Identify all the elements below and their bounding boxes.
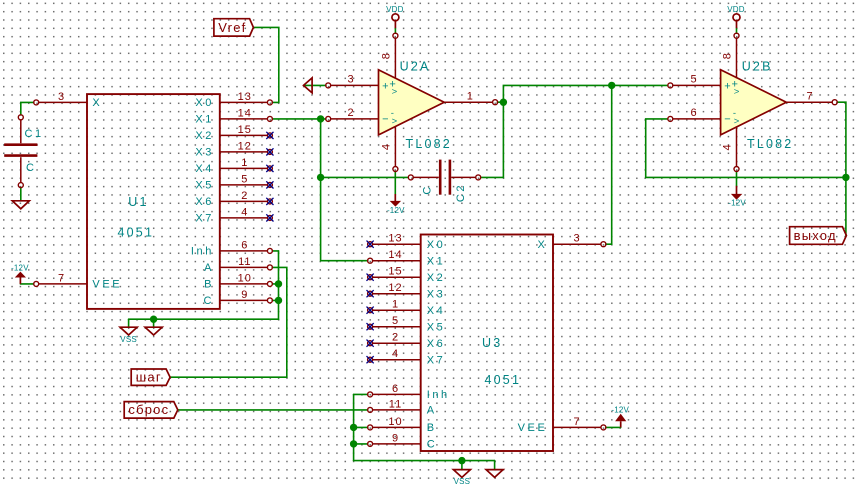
U1 pin 2 X6 [195, 190, 273, 208]
svg-text:C2: C2 [455, 183, 467, 202]
svg-text:6: 6 [241, 239, 248, 251]
svg-text:3: 3 [573, 233, 580, 245]
wire stem to VSS symbol U1 [128, 319, 130, 327]
svg-text:X0: X0 [427, 239, 446, 251]
svg-text:>: > [734, 87, 740, 98]
junction U1 pin B on VSS rail [275, 280, 282, 287]
wire U1 control vertical to VSS rail [278, 251, 280, 319]
plus mark inside U2A [382, 79, 397, 98]
U1 pin 13 X0 [195, 91, 272, 109]
U3 pin 3 X [537, 233, 605, 251]
svg-text:>: > [392, 87, 398, 98]
U3 pin 10 B [368, 416, 437, 434]
svg-text:выход: выход [794, 228, 837, 243]
wire VDD to U2A pin 8 [394, 28, 396, 33]
svg-text:5: 5 [241, 173, 248, 185]
no-connect flag on U3 pin 12 [367, 290, 374, 297]
power symbol -12V at U1 VEE [11, 264, 29, 284]
svg-text:-12V: -12V [11, 264, 29, 273]
svg-text:X2: X2 [427, 272, 446, 284]
svg-text:A: A [427, 405, 437, 417]
svg-text:6: 6 [690, 107, 697, 119]
svg-text:10: 10 [388, 416, 402, 428]
svg-text:12: 12 [238, 140, 252, 152]
U1 pin 5 X5 [195, 173, 273, 191]
junction feedback at C2 left net [317, 174, 324, 181]
no-connect flag on U1 pin 15 [266, 132, 273, 139]
svg-text:X7: X7 [427, 354, 446, 366]
wire U2B feedback pin 6 loop [646, 119, 846, 177]
U1 pin 9 C [203, 289, 272, 307]
svg-text:13: 13 [238, 91, 252, 103]
svg-text:−: − [382, 114, 388, 126]
wire C1 bottom to ground [20, 188, 22, 201]
U3 pin 13 X0 [367, 233, 446, 251]
U2A pin 4 V- power pin [380, 126, 398, 171]
svg-text:B: B [427, 422, 437, 434]
wire U1 pin 9 C stub [272, 299, 278, 301]
capacitor C1 [4, 115, 37, 188]
wire U3 pin 9 C stub [354, 443, 368, 445]
svg-text:−: − [724, 114, 730, 126]
U1 pin 14 X1 [195, 107, 272, 125]
svg-text:5: 5 [690, 74, 697, 86]
svg-text:-12V: -12V [611, 405, 629, 414]
svg-text:13: 13 [388, 233, 402, 245]
svg-text:12: 12 [388, 282, 402, 294]
svg-text:X6: X6 [427, 338, 446, 350]
U1 pin 10 B [204, 272, 272, 290]
svg-text:10: 10 [238, 272, 252, 284]
global label Vref [214, 19, 254, 36]
no-connect flag on U1 pin 12 [266, 148, 273, 155]
svg-text:+: + [724, 81, 730, 93]
U1 pin 4 X7 [195, 206, 273, 224]
ground symbol below C1 [12, 201, 29, 209]
no-connect flag on U3 pin 15 [367, 274, 374, 281]
U2A pin 3 non-inverting input [326, 74, 379, 88]
svg-text:11: 11 [238, 256, 251, 268]
wire stem to ground symbol U1 [153, 319, 155, 327]
IC U3 4051 body [421, 235, 553, 452]
op-amp U2A TL082 triangle [379, 70, 445, 135]
svg-text:2: 2 [241, 190, 248, 202]
U3 pin 1 X4 [367, 299, 446, 317]
no-connect flag on U3 pin 1 [367, 307, 374, 314]
U3 pin 6 Inh [368, 383, 450, 401]
svg-text:TL082: TL082 [406, 137, 452, 151]
wire U3 pin 10 B stub [354, 426, 368, 428]
wire U1 pin 14 to U2A pin 2 [272, 118, 326, 120]
svg-text:X1: X1 [427, 255, 446, 267]
U2B pin 4 V- power pin [721, 126, 739, 171]
svg-text:3: 3 [58, 91, 65, 103]
svg-text:Vref: Vref [218, 20, 246, 35]
wire U1 pin 6 Inh stub [272, 250, 278, 252]
wire U2A pin 1 stub [497, 101, 503, 103]
svg-text:VDD: VDD [727, 5, 745, 14]
U3 pin 5 X5 [367, 315, 446, 333]
wire U1 pin 3 to C1 top [21, 102, 34, 115]
wire U2B pin 7 output down to vyhod label [837, 102, 846, 235]
U2B pin 5 non-inverting input [668, 74, 721, 88]
global label vyhod [790, 227, 847, 245]
minus mark inside U2B [724, 108, 739, 127]
U2A pin 1 output [444, 91, 497, 105]
svg-text:7: 7 [806, 91, 813, 103]
U3 pin 15 X2 [367, 266, 446, 284]
U1 pin 12 X3 [195, 140, 273, 158]
svg-text:U3: U3 [482, 336, 502, 350]
wire output node up and to U2B pin 5 [503, 85, 668, 102]
wire U2B pin 4 to -12V [736, 171, 738, 185]
junction node X1 at U2A pin 2 [317, 115, 324, 122]
wire U2A pin 4 to -12V [394, 171, 396, 194]
svg-text:8: 8 [721, 52, 733, 59]
svg-text:>: > [392, 116, 398, 127]
svg-text:>: > [734, 116, 740, 127]
junction branch to U3 X input [608, 82, 615, 89]
svg-text:шаг: шаг [136, 370, 162, 385]
junction U3 pin C on VSS rail [350, 440, 357, 447]
wire feedback node to C2 left [321, 176, 409, 178]
U3 pin 2 X6 [367, 332, 446, 350]
junction U1 pin C on VSS rail [275, 297, 282, 304]
U3 pin 7 VEE [518, 416, 606, 434]
svg-text:C: C [422, 184, 434, 195]
power symbol -12V at U3 VEE [611, 405, 629, 427]
svg-text:X2: X2 [195, 130, 214, 142]
U1 pin 11 A [204, 256, 272, 274]
svg-text:B: B [204, 279, 214, 291]
U1 pin 7 VEE [34, 272, 123, 290]
svg-text:VSS: VSS [120, 335, 137, 344]
svg-text:1: 1 [392, 299, 399, 311]
svg-text:TL082: TL082 [747, 137, 793, 151]
svg-text:Inh: Inh [191, 246, 214, 258]
svg-text:3: 3 [347, 74, 354, 86]
junction U2A output node [500, 99, 507, 106]
svg-text:8: 8 [380, 52, 392, 59]
svg-text:1: 1 [467, 91, 474, 103]
capacitor C2 [408, 160, 480, 195]
svg-text:14: 14 [238, 107, 252, 119]
U1 pin 15 X2 [195, 124, 273, 142]
svg-text:U2A: U2A [400, 59, 431, 73]
wire U1 VSS rail horizontal [129, 318, 279, 320]
svg-text:+: + [382, 81, 388, 93]
svg-text:X3: X3 [195, 147, 214, 159]
U3 pin 4 X7 [367, 348, 446, 366]
U3 pin 14 X1 [368, 249, 446, 267]
wire U1 pin 10 B stub [272, 283, 278, 285]
svg-text:X1: X1 [195, 114, 214, 126]
svg-text:VEE: VEE [518, 422, 548, 434]
svg-text:-12V: -12V [728, 198, 746, 207]
svg-text:2: 2 [392, 332, 399, 344]
svg-text:11: 11 [389, 398, 402, 410]
global label sbros [124, 402, 178, 419]
svg-text:4051: 4051 [485, 373, 522, 387]
power symbol -12V below U2B [728, 186, 746, 208]
power symbol VDD above U2A [386, 5, 404, 28]
wire U3 pin 7 VEE to -12V [606, 426, 621, 428]
svg-text:X0: X0 [195, 97, 214, 109]
wire node X1 vertical down to U3 pin 14 [321, 119, 368, 261]
svg-text:1: 1 [241, 157, 248, 169]
U1 pin 3 X [34, 91, 103, 109]
svg-text:C: C [203, 295, 214, 307]
junction U3 VSS rail at VSS symbol [458, 457, 465, 464]
junction U1 VSS rail at ground [150, 316, 157, 323]
svg-text:X5: X5 [427, 321, 446, 333]
svg-text:2: 2 [347, 107, 354, 119]
svg-text:5: 5 [392, 315, 399, 327]
wire C2 right to output node [481, 102, 504, 177]
svg-text:X5: X5 [195, 180, 214, 192]
power symbol -12V below U2A [387, 194, 405, 215]
svg-text:C1: C1 [25, 128, 44, 140]
svg-text:C: C [427, 439, 438, 451]
no-connect flag on U3 pin 13 [367, 241, 374, 248]
wire input arrow to U2A pin 3 [304, 84, 326, 86]
no-connect flag on U1 pin 5 [266, 181, 273, 188]
svg-text:4: 4 [392, 348, 399, 360]
wire stem to ground symbol U3 [494, 461, 496, 470]
U2B pin 8 V+ power pin [721, 33, 739, 78]
power symbol VDD above U2B [727, 5, 745, 28]
junction U3 pin B on VSS rail [350, 424, 357, 431]
svg-text:14: 14 [388, 249, 402, 261]
input arrow global label at U2A pin 3 [304, 78, 313, 93]
svg-text:C: C [26, 162, 37, 174]
svg-text:сброс: сброс [128, 402, 169, 417]
svg-text:4: 4 [241, 206, 248, 218]
svg-text:4: 4 [721, 143, 733, 150]
svg-text:U1: U1 [128, 195, 148, 209]
svg-text:15: 15 [388, 266, 402, 278]
U3 pin 9 C [368, 432, 438, 450]
ground symbol below U1 [145, 327, 162, 335]
minus mark inside U2A [382, 108, 397, 127]
op-amp U2B TL082 triangle [721, 70, 787, 135]
svg-text:X4: X4 [195, 163, 214, 175]
svg-text:X: X [92, 97, 102, 109]
svg-text:6: 6 [392, 383, 399, 395]
no-connect flag on U1 pin 1 [266, 165, 273, 172]
U2A pin 8 V+ power pin [380, 33, 398, 78]
no-connect flag on U3 pin 2 [367, 340, 374, 347]
wire net shag to U1 pin 11 A [170, 267, 287, 377]
U3 pin 12 X3 [367, 282, 446, 300]
svg-text:X: X [537, 239, 547, 251]
svg-text:X4: X4 [427, 305, 446, 317]
U2B pin 6 inverting input [668, 107, 721, 121]
svg-text:7: 7 [573, 416, 580, 428]
wire U1 pin 7 VEE to -12V [20, 283, 33, 285]
junction U2B feedback at output [842, 174, 849, 181]
power symbol VSS below U1 [120, 327, 137, 344]
svg-text:4051: 4051 [118, 225, 155, 239]
wire stem to VSS symbol U3 [461, 461, 463, 470]
svg-text:VEE: VEE [92, 279, 122, 291]
U1 pin 6 Inh [191, 239, 272, 257]
svg-text:7: 7 [58, 272, 65, 284]
U3 pin 11 A [368, 398, 437, 416]
wire U3 control vertical to VSS rail [353, 394, 355, 460]
svg-text:15: 15 [238, 124, 252, 136]
global label shag [131, 369, 170, 385]
svg-text:U2B: U2B [742, 59, 773, 73]
no-connect flag on U3 pin 4 [367, 356, 374, 363]
U2B pin 7 output [786, 91, 837, 105]
svg-text:Inh: Inh [427, 389, 450, 401]
power symbol VSS below U3 [453, 470, 470, 484]
wire net sbros to U3 pin 11 A [178, 409, 368, 411]
U2A pin 2 inverting input [326, 107, 379, 121]
svg-text:9: 9 [392, 432, 399, 444]
wire branch down to U3 pin 3 X input [606, 85, 612, 244]
U1 pin 1 X4 [195, 157, 273, 175]
wire net Vref to U1 pin 13 [253, 27, 278, 102]
svg-text:4: 4 [380, 143, 392, 150]
IC U1 4051 body [87, 94, 220, 309]
wire U3 VSS rail horizontal [354, 460, 495, 462]
svg-text:VSS: VSS [454, 477, 471, 484]
svg-text:X7: X7 [195, 213, 214, 225]
no-connect flag on U1 pin 4 [266, 214, 273, 221]
svg-text:VDD: VDD [386, 5, 404, 14]
svg-text:9: 9 [241, 289, 248, 301]
svg-text:-12V: -12V [387, 206, 405, 215]
svg-text:A: A [204, 262, 214, 274]
ground symbol below U3 [486, 470, 503, 478]
wire VDD to U2B pin 8 [736, 28, 738, 33]
svg-text:X3: X3 [427, 288, 446, 300]
no-connect flag on U1 pin 2 [266, 198, 273, 205]
wire U3 pin 6 Inh stub [354, 393, 368, 395]
plus mark inside U2B [724, 79, 739, 98]
svg-text:X6: X6 [195, 196, 214, 208]
no-connect flag on U3 pin 5 [367, 323, 374, 330]
